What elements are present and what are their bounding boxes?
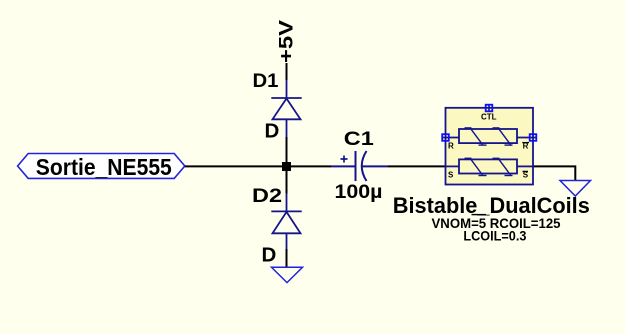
- wire D2 to ground: [286, 249, 288, 268]
- pin R left: [443, 137, 460, 139]
- svg-text:D: D: [265, 119, 280, 142]
- coil 1 (R row): [459, 128, 517, 145]
- svg-text:100µ: 100µ: [335, 181, 383, 203]
- unconnected pin marker R left: [442, 134, 449, 141]
- ground (below D2): [272, 267, 303, 282]
- wire label to junction: [185, 165, 287, 167]
- capacitor C1: [331, 151, 387, 181]
- svg-text:C1: C1: [344, 128, 374, 150]
- svg-text:Sortie_NE555: Sortie_NE555: [36, 154, 172, 180]
- diode D2: [271, 194, 301, 250]
- diode D1: [271, 80, 301, 137]
- wire junction to D2: [286, 166, 288, 193]
- unconnected pin marker CTL: [486, 105, 493, 112]
- unconnected pin marker R right: [530, 134, 537, 141]
- wire +5V to D1: [286, 63, 288, 80]
- svg-text:+5V: +5V: [276, 20, 298, 63]
- pin CTL stub: [488, 105, 490, 111]
- svg-text:S: S: [448, 170, 454, 179]
- global label Sortie_NE555: [18, 154, 185, 181]
- plus sign of C1: [341, 156, 348, 163]
- svg-text:R: R: [448, 142, 454, 151]
- svg-text:D2: D2: [252, 185, 282, 207]
- wire capacitor to component: [387, 165, 445, 167]
- svg-text:LCOIL=0.3: LCOIL=0.3: [463, 228, 526, 244]
- pin R right: [517, 137, 536, 139]
- wire junction to capacitor: [287, 165, 331, 167]
- junction: [282, 162, 291, 171]
- overline over 5: [472, 214, 487, 216]
- wire component to right ground: [533, 166, 575, 180]
- svg-text:D: D: [262, 244, 277, 267]
- svg-text:CTL: CTL: [481, 113, 497, 122]
- pin S left: [446, 165, 460, 167]
- ground (right of component): [560, 181, 591, 197]
- component U1 Bistable_DualCoils body: [446, 108, 534, 185]
- pin S right: [517, 165, 533, 167]
- wire D1 to junction: [286, 137, 288, 166]
- coil 2 (S row): [459, 158, 517, 175]
- svg-text:D1: D1: [253, 70, 279, 92]
